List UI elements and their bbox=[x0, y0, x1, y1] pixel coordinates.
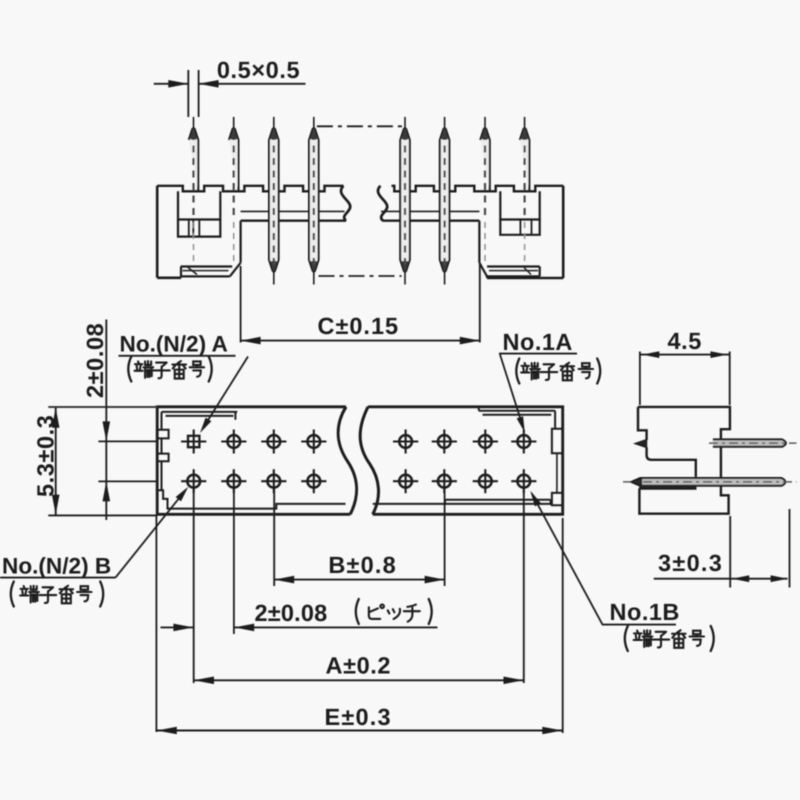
svg-text:E±0.3: E±0.3 bbox=[325, 704, 392, 730]
svg-text:No.1A: No.1A bbox=[503, 329, 573, 355]
svg-text:4.5: 4.5 bbox=[667, 328, 701, 354]
svg-text:A±0.2: A±0.2 bbox=[326, 653, 392, 679]
svg-text:0.5×0.5: 0.5×0.5 bbox=[217, 57, 300, 83]
svg-text:No.(N/2) B: No.(N/2) B bbox=[2, 554, 111, 579]
svg-text:3±0.3: 3±0.3 bbox=[658, 550, 723, 576]
svg-text:C±0.15: C±0.15 bbox=[317, 313, 399, 339]
svg-text:2±0.08: 2±0.08 bbox=[82, 323, 108, 398]
svg-text:No.1B: No.1B bbox=[610, 599, 680, 625]
svg-text:2±0.08: 2±0.08 bbox=[255, 600, 328, 626]
svg-text:No.(N/2) A: No.(N/2) A bbox=[120, 332, 228, 357]
svg-text:B±0.8: B±0.8 bbox=[328, 552, 397, 578]
svg-text:5.3±0.3: 5.3±0.3 bbox=[33, 415, 59, 497]
